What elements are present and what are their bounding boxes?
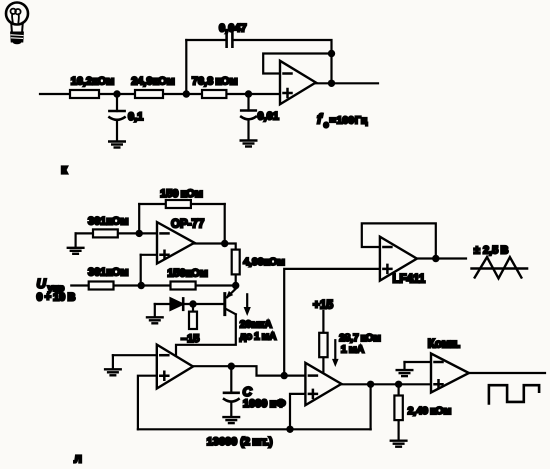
svg-text:4,99кОм: 4,99кОм [243,256,285,268]
node: OTA2 output riser [367,381,374,388]
resistor 301k (from Uupr) [89,282,114,290]
capacitor C 0.1 [109,94,124,141]
wire: noninverting riser [140,255,142,286]
square wave symbol [489,385,539,403]
svg-text:16,2кОм: 16,2кОм [71,76,115,88]
node: op-amp output [328,80,335,87]
resistor 4.99k [232,250,240,275]
resistor to -15 [189,304,197,329]
wire: LF411 output [416,257,466,259]
wire: 150k feedback rail (OP-77) [139,203,225,205]
wire: 0.047 top rail right part + drop to output [234,40,332,83]
svg-text:Комп.: Комп. [428,339,461,351]
OTA U3 (13600 #1) [157,345,193,389]
resistor 2.49k [394,384,402,440]
ground (under C) [224,417,240,423]
capacitor C 0.01 [241,94,256,140]
wire: 0.047 top rail left part [186,39,225,41]
svg-text:f: f [317,111,323,127]
node: OTA1 output / C [228,363,235,370]
label Uupr 0-10V [37,276,76,304]
resistor 28.7k [319,333,327,357]
svg-text:= 100 Гц: = 100 Гц [330,115,368,127]
svg-text:–15: –15 [181,333,199,345]
node X: below 4.99k [232,282,239,289]
wire: OTA1 output to OTA2 inverting input [192,366,305,375]
node: OP-77 inverting input [136,230,143,237]
wire: OTA2 output to comparator [341,383,432,385]
wire: inverting input line (301k from ground) [76,232,157,234]
svg-text:л: л [74,452,82,466]
wire: comparator output [468,372,545,374]
node: after 76.8k [245,90,252,97]
wire: left vertical of feedback rail [138,204,140,233]
svg-text:20мкА: 20мкА [240,318,273,330]
ground (301k upper) [68,233,84,253]
ground (under 2.49k) [391,441,407,447]
svg-text:+15: +15 [313,298,334,312]
resistor 150k (lower) [171,282,196,290]
resistor R 24.9kOhm [135,90,163,98]
op-amp U2 OP-77 [157,222,194,263]
wire: bottom feedback rail [138,428,371,430]
svg-text:301кОм: 301кОм [88,266,129,278]
ground (comparator inverting) [397,362,413,376]
node: 2.49k tap [395,381,402,388]
svg-text:150кОм: 150кОм [167,268,208,280]
wire: LF411 noninverting input and riser [284,269,380,376]
svg-text:C: C [243,384,253,399]
svg-text:0,01: 0,01 [258,111,279,123]
triangle wave symbol [472,257,528,278]
ground (under 0.1 cap) [109,142,125,148]
transistor Q1 (PNP) [225,286,236,315]
svg-text:U: U [37,276,47,291]
svg-text:0,1: 0,1 [128,111,143,123]
wire: LF411 feedback loop [362,223,436,258]
node: transistor base / diode cathode [189,300,196,307]
op-amp U1 (top filter) [280,61,316,105]
node: after 24.9k (feedback tap) [183,90,190,97]
wire: collector to OTA1 bias [176,314,236,358]
wire: +15 to 28.7k to OTA2 bias [322,311,324,372]
wire: OP-77 output to 4.99k jog [194,244,236,286]
svg-text:13600 (2 шт.): 13600 (2 шт.) [207,436,273,448]
ground (under 0.01 cap) [241,141,257,147]
wire: OTA1 inverting input [113,354,157,356]
svg-text:150 кОм: 150 кОм [160,188,203,200]
label fc = 100 Hz [317,111,368,130]
wire: diode/base line [155,303,224,305]
ground (diode anode) [147,304,163,323]
svg-text:ОР-77: ОР-77 [171,219,204,231]
wire: main input line [40,93,281,95]
svg-text:24,9кОм: 24,9кОм [131,76,175,88]
node: bottom rail junction [286,426,293,433]
svg-text:0,047: 0,047 [219,23,247,35]
wire: feedback loop output to inverting input [263,54,331,74]
resistor R 76.8kOhm [202,90,226,98]
wire: OTA1 noninverting input + riser to bottom rail [138,376,157,430]
wire: OTA2 noninverting input + riser [290,394,305,429]
svg-text:301кОм: 301кОм [88,216,129,228]
resistor 301k (to ground) [93,229,118,237]
node: LF411 output [432,255,439,262]
node: LF411 + riser junction [281,372,288,379]
node: OP-77 noninverting tap [138,282,145,289]
resistor 150k (feedback) [166,200,191,208]
wire: output riser to bottom rail [370,384,372,429]
resistor R 16.2kOhm [70,90,99,98]
wire: Uupr input line [71,284,235,286]
svg-text:1000 пФ: 1000 пФ [243,398,286,410]
diode D1 [171,298,184,309]
svg-text:± 2,5 В: ± 2,5 В [474,245,509,257]
svg-text:LF411: LF411 [393,274,426,286]
light bulb icon [6,3,28,45]
wire: node B riser to 0.047 rail [185,40,187,94]
svg-text:1 мА: 1 мА [341,343,365,355]
node: after 16.2k [113,90,120,97]
svg-text:до 1 мА: до 1 мА [240,331,277,342]
wire: comparator inverting input [405,361,432,363]
OTA U5 (13600 #2) [305,363,341,405]
node: feedback junction [328,50,335,57]
current arrow 1mA [332,340,339,367]
svg-text:2,49 кОм: 2,49 кОм [408,405,452,417]
comparator U6 [431,354,469,393]
capacitor C 0.047 [227,33,233,47]
svg-text:76,8 кОм: 76,8 кОм [192,76,238,88]
svg-text:c: c [324,120,329,130]
ground (OTA1 inverting) [105,355,121,375]
op-amp U4 LF411 [380,237,417,281]
wire: right vertical of feedback rail [224,204,226,244]
capacitor C 1000pF [224,366,239,416]
node: OP-77 output [221,240,228,247]
wire: op-amp output line [315,82,378,84]
wire: OP-77 noninverting input [141,254,157,256]
svg-text:0 ÷ 10 В: 0 ÷ 10 В [37,292,76,304]
svg-text:к: к [61,163,68,177]
current arrow 20uA..1mA [244,294,251,316]
